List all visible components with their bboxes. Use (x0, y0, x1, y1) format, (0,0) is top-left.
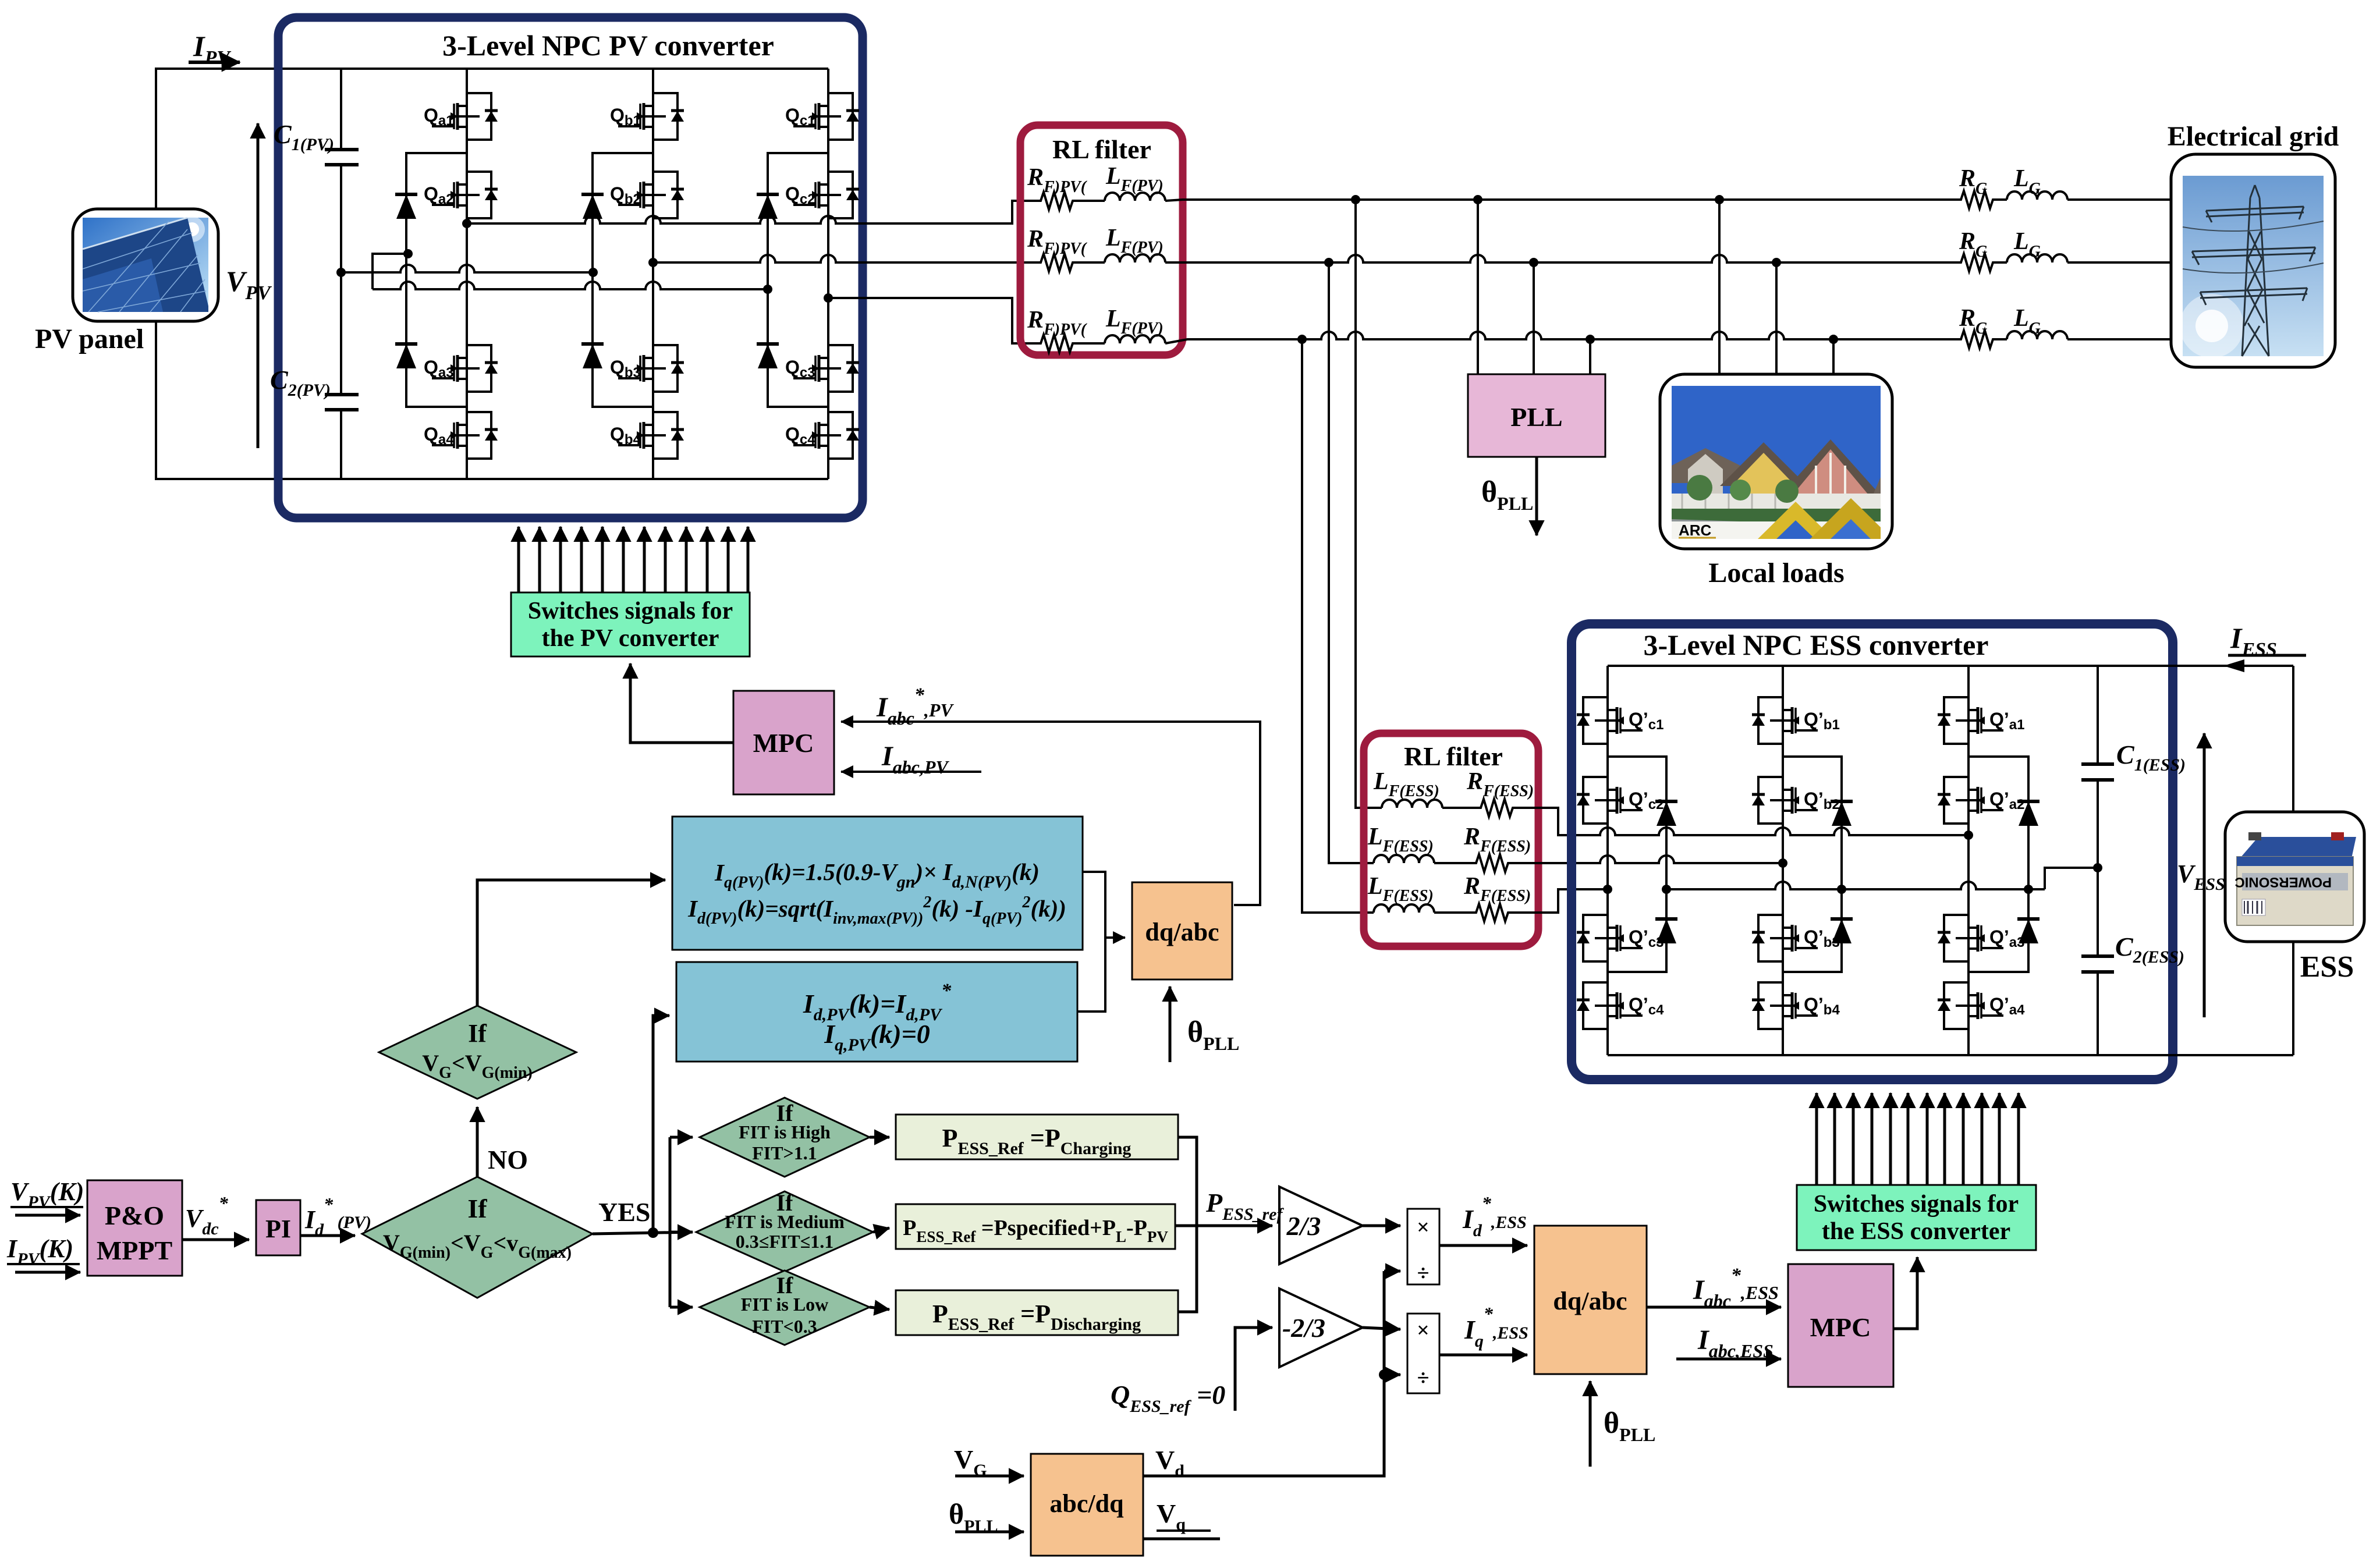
wire ESS battery negative (2292, 942, 2294, 1055)
wire clamp column ESS leg c (1608, 757, 1666, 972)
wire formula outputs to dq/abc (1077, 872, 1125, 1012)
gain block -2/3 (1279, 1289, 1363, 1367)
wire PV panel top to converter DC+ rail (156, 69, 828, 209)
wire High to P charging box (870, 1136, 889, 1139)
PV panel (35, 209, 218, 354)
transistor Qb2 (610, 172, 684, 218)
svg-text:the PV converter: the PV converter (542, 625, 719, 652)
svg-text:FIT<0.3: FIT<0.3 (752, 1316, 817, 1337)
diode D'a1 (2017, 801, 2040, 826)
resistor RF(PV) phase b (1027, 226, 1087, 271)
inductor LF(ESS) row2 (1367, 824, 1434, 863)
wire MPC ESS to switches box (1893, 1257, 1917, 1329)
wire ESS neutral bus (1662, 863, 2102, 894)
node V_G input (954, 1445, 1024, 1480)
capacitor C2(ESS) (2081, 932, 2184, 972)
wire ESS DC link bus (2097, 666, 2099, 1055)
svg-text:FIT>1.1: FIT>1.1 (752, 1142, 817, 1163)
transistor Qc4 (785, 412, 859, 459)
decision diamond VG less than VGmin (379, 1006, 576, 1099)
svg-text:Switches signals for: Switches signals for (1814, 1191, 2019, 1218)
svg-text:PV panel: PV panel (35, 324, 144, 354)
RL filter (ESS) box (1364, 733, 1538, 946)
wire ESS leg c (1606, 666, 1609, 1055)
svg-text:RL filter: RL filter (1052, 134, 1151, 164)
wire to formula box 2 (653, 1016, 669, 1233)
transistor Q'a1 (1938, 697, 2024, 744)
3-Level NPC PV converter box (278, 17, 863, 518)
wire gain to multiplier (1363, 1225, 1400, 1227)
diode D'a2 (2017, 919, 2040, 943)
diode Da2 (395, 344, 417, 368)
wire phase b output (648, 255, 1037, 267)
diode D'b2 (1831, 919, 1853, 943)
transistor Q'a3 (1938, 915, 2024, 961)
abc/dq block (1031, 1454, 1143, 1556)
decision diamond FIT Low (700, 1270, 870, 1345)
decision diamond FIT High (700, 1098, 870, 1177)
RL filter (PV) box (1020, 125, 1183, 355)
wire tap phase A down to ESS filter (1356, 200, 1382, 808)
node V_ESS label and arrow (2177, 733, 2225, 1017)
wire phase c output (824, 293, 1037, 343)
transistor Q'b4 (1752, 982, 1840, 1029)
wire clamp column leg b (593, 153, 653, 407)
node V_PV label and arrow (226, 123, 272, 448)
svg-text:ARC: ARC (1679, 521, 1712, 539)
svg-text:If: If (468, 1019, 487, 1048)
wire Iabc*,PV reference (841, 684, 1260, 905)
wire tap phase C to PLL (1589, 339, 1591, 374)
formula box Id,PV (676, 962, 1077, 1062)
wire ESS battery positive (2292, 666, 2294, 812)
svg-text:÷: ÷ (1417, 1261, 1430, 1286)
wire phase C bus (1165, 332, 1957, 344)
svg-text:-2/3: -2/3 (1282, 1313, 1325, 1343)
diode Da1 (395, 194, 417, 219)
wire gate signal arrows to ESS converter (1817, 1093, 2019, 1185)
wire Iabc,PV measurement (841, 741, 981, 778)
diode Dc2 (757, 344, 779, 368)
svg-text:MPC: MPC (1810, 1312, 1871, 1342)
wire FIT branch bracket (670, 1137, 693, 1307)
wire theta_PLL into dq/abc PV (1170, 986, 1239, 1062)
wire ESS phase A into converter (1514, 808, 1973, 840)
transistor Q'a4 (1938, 982, 2025, 1029)
wire Iabc,ESS to MPC (1676, 1325, 1781, 1361)
svg-text:If: If (467, 1194, 487, 1223)
svg-text:dq/abc: dq/abc (1553, 1287, 1627, 1315)
svg-text:dq/abc: dq/abc (1145, 918, 1219, 946)
resistor RF(ESS) row1 (1442, 768, 1534, 817)
svg-text:FIT is Low: FIT is Low (741, 1294, 829, 1315)
wire Id* to dq/abc (1439, 1244, 1527, 1247)
formula box Iq(PV) (672, 817, 1083, 950)
diode Db2 (581, 344, 604, 368)
P_ESS_Ref discharging box (896, 1290, 1178, 1335)
transistor Q'c2 (1577, 777, 1663, 824)
wire P_ESS_ref to gain (1197, 1225, 1272, 1227)
transistor Qb4 (610, 412, 684, 459)
transistor Q'b3 (1752, 915, 1840, 961)
wire tap phase B to local loads (1775, 262, 1778, 374)
svg-text:FIT is Medium: FIT is Medium (725, 1211, 845, 1232)
wire phase a output (462, 201, 1037, 228)
node V_PV(K) input (10, 1177, 84, 1215)
decision diamond VG range (362, 1177, 593, 1298)
inductor LF(ESS) row3 (1367, 873, 1434, 913)
svg-text:Local loads: Local loads (1708, 558, 1844, 588)
svg-text:3-Level NPC ESS converter: 3-Level NPC ESS converter (1644, 629, 1989, 661)
wire clamp column leg a (406, 153, 467, 407)
P_ESS_Ref specified box (896, 1204, 1175, 1249)
transistor Q'c3 (1577, 915, 1663, 961)
wire DC link bus (340, 69, 342, 150)
svg-text:FIT is High: FIT is High (739, 1122, 831, 1142)
transistor Qc3 (785, 345, 859, 392)
transistor Qb3 (610, 345, 684, 392)
gain block 2/3 (1279, 1187, 1363, 1264)
svg-text:Electrical grid: Electrical grid (2168, 121, 2339, 152)
svg-text:2/3: 2/3 (1286, 1211, 1321, 1241)
svg-text:RL filter: RL filter (1404, 741, 1503, 771)
wire Low to P discharging box (870, 1307, 889, 1309)
transistor Q'a2 (1938, 777, 2024, 824)
inductor LG phase b (1995, 228, 2171, 262)
transistor Qa4 (424, 412, 498, 459)
wire leg b (652, 69, 654, 479)
svg-text:YES: YES (598, 1197, 650, 1227)
wire ESS phase B into converter (1510, 856, 1787, 868)
P_ESS_Ref charging box (896, 1115, 1178, 1159)
inductor LF(PV) phase b (1074, 225, 1165, 262)
diode D'c1 (1655, 801, 1677, 826)
Switches signals for the PV converter box (511, 592, 750, 656)
svg-text:ESS: ESS (2300, 950, 2354, 984)
transistor Qc2 (785, 172, 859, 218)
wire tap phase B down to ESS filter (1329, 262, 1374, 863)
capacitor C1(ESS) (2081, 740, 2186, 780)
transistor Q'c4 (1577, 982, 1664, 1029)
wire phase A bus (1165, 195, 1957, 204)
wire PV panel bottom to converter DC- rail (156, 321, 828, 479)
wire gate signal arrows to PV converter (519, 527, 748, 592)
wire tap phase A to local loads (1718, 200, 1721, 374)
3-Level NPC ESS converter box (1572, 624, 2173, 1080)
diode D'b1 (1831, 801, 1853, 826)
svg-text:PLL: PLL (1510, 402, 1562, 432)
resistor RF(ESS) row3 (1434, 873, 1531, 921)
wire ESS phase C into converter (1510, 885, 1612, 913)
wire P box output bracket (1175, 1137, 1197, 1312)
wire gain to multiplier 2 (1363, 1328, 1400, 1329)
wire theta_PLL output (1481, 457, 1537, 535)
wire to formula box 1 (477, 880, 665, 1006)
wire neutral bus (336, 249, 772, 294)
wire P&O to PI (182, 1238, 249, 1241)
wire Vd into divider 1 (1384, 1270, 1400, 1273)
wire ESS DC+ rail (1608, 665, 2293, 667)
svg-text:MPC: MPC (753, 728, 814, 758)
decision diamond FIT Medium (696, 1190, 873, 1272)
svg-text:÷: ÷ (1417, 1366, 1430, 1390)
resistor RF(PV) phase c (1027, 307, 1087, 352)
diode Db1 (581, 194, 604, 219)
wire Vd feed vertical (1143, 1271, 1400, 1476)
MPC block (ESS) (1788, 1264, 1893, 1387)
wire tap phase C down to ESS filter (1302, 339, 1374, 913)
wire clamp column ESS leg b (1783, 757, 1842, 972)
svg-text:PI: PI (265, 1215, 291, 1243)
transistor Qa1 (424, 93, 498, 140)
PLL block (1468, 374, 1605, 457)
multiplier divider block 1 (1407, 1209, 1439, 1286)
svg-text:×: × (1417, 1215, 1430, 1240)
node I_PV(K) input (6, 1234, 80, 1272)
svg-text:0.3≤FIT≤1.1: 0.3≤FIT≤1.1 (736, 1231, 833, 1252)
transistor Qb1 (610, 93, 684, 140)
wire Iabc*,ESS to MPC (1647, 1265, 1781, 1311)
wire ESS DC- rail (1608, 1054, 2293, 1056)
wire ESS leg a (1967, 666, 1970, 1055)
capacitor C2(PV) (270, 365, 359, 410)
wire leg a (466, 69, 468, 479)
multiplier divider block 2 (1407, 1314, 1439, 1393)
resistor RG phase b (1957, 228, 1995, 271)
transistor Qc1 (785, 93, 859, 140)
resistor RG phase c (1957, 305, 1995, 348)
wire tap phase B to PLL (1533, 262, 1535, 374)
svg-text:the ESS converter: the ESS converter (1822, 1218, 2010, 1245)
capacitor C1(PV) (274, 119, 359, 165)
wire phase B bus (1165, 255, 1957, 267)
transistor Qa3 (424, 345, 498, 392)
transistor Q'b1 (1752, 697, 1840, 744)
resistor RF(PV) phase a (1027, 164, 1087, 210)
node I_ESS label (2223, 622, 2306, 672)
inductor LF(ESS) row1 (1373, 768, 1442, 808)
transistor Q'b2 (1752, 777, 1840, 824)
wire ESS leg b (1782, 666, 1784, 1055)
transistor Q'c1 (1577, 697, 1663, 744)
PI block (256, 1200, 300, 1255)
svg-text:3-Level NPC PV converter: 3-Level NPC PV converter (442, 29, 774, 62)
inductor LG phase a (1995, 165, 2171, 200)
resistor RG phase a (1957, 165, 1995, 208)
svg-text:Switches signals for: Switches signals for (528, 598, 733, 624)
wire clamp column leg c (768, 153, 828, 407)
Electrical grid box (2168, 121, 2339, 367)
P&O MPPT block (87, 1180, 182, 1276)
transistor Qa2 (424, 172, 498, 218)
svg-text:NO: NO (488, 1145, 528, 1174)
svg-text:MPPT: MPPT (97, 1236, 172, 1265)
dq/abc block (ESS) (1534, 1226, 1647, 1374)
Switches signals for the ESS converter box (1797, 1185, 2036, 1250)
inductor LF(PV) phase c (1074, 306, 1165, 343)
resistor RF(ESS) row2 (1434, 824, 1531, 872)
wire NO branch (476, 1107, 479, 1177)
dq/abc block (PV) (1132, 882, 1232, 979)
node I_PV label (189, 30, 240, 69)
svg-text:POWERSONIC: POWERSONIC (2234, 874, 2332, 890)
wire Q_ESS_ref input (1111, 1328, 1272, 1416)
svg-text:×: × (1417, 1318, 1430, 1343)
node V_q output (1143, 1499, 1220, 1539)
wire YES branch (593, 1227, 693, 1238)
inductor LF(PV) phase a (1074, 163, 1165, 201)
wire PI to decision diamond (300, 1234, 355, 1237)
diode Dc1 (757, 194, 779, 219)
wire tap phase C to local loads (1832, 339, 1835, 374)
inductor LG phase c (1995, 305, 2171, 339)
wire clamp column ESS leg a (1968, 757, 2028, 972)
wire tap phase A to PLL (1477, 200, 1479, 374)
wire Medium to P specified box (873, 1228, 889, 1232)
wire leg c (827, 69, 829, 479)
svg-text:abc/dq: abc/dq (1049, 1489, 1124, 1518)
diode D'c2 (1655, 919, 1677, 943)
wire theta_PLL into dq/abc ESS (1590, 1381, 1655, 1467)
wire Iq* to dq/abc (1439, 1354, 1527, 1357)
wire MPC to switches box (630, 663, 733, 743)
MPC block (PV) (733, 691, 834, 794)
node theta_PLL input to abc/dq (949, 1497, 1024, 1536)
ESS battery (2225, 812, 2364, 984)
svg-text:P&O: P&O (105, 1201, 164, 1230)
